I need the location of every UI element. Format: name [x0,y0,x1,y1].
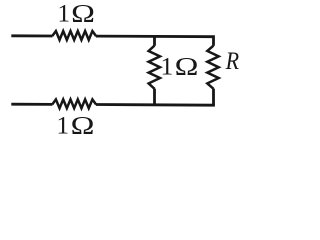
svg-text:Ω: Ω [175,52,199,81]
svg-text:Ω: Ω [71,0,95,28]
svg-text:1: 1 [56,110,69,136]
svg-text:1: 1 [161,52,174,81]
svg-text:1: 1 [57,0,70,28]
svg-text:R: R [225,46,240,75]
svg-text:Ω: Ω [71,110,95,136]
